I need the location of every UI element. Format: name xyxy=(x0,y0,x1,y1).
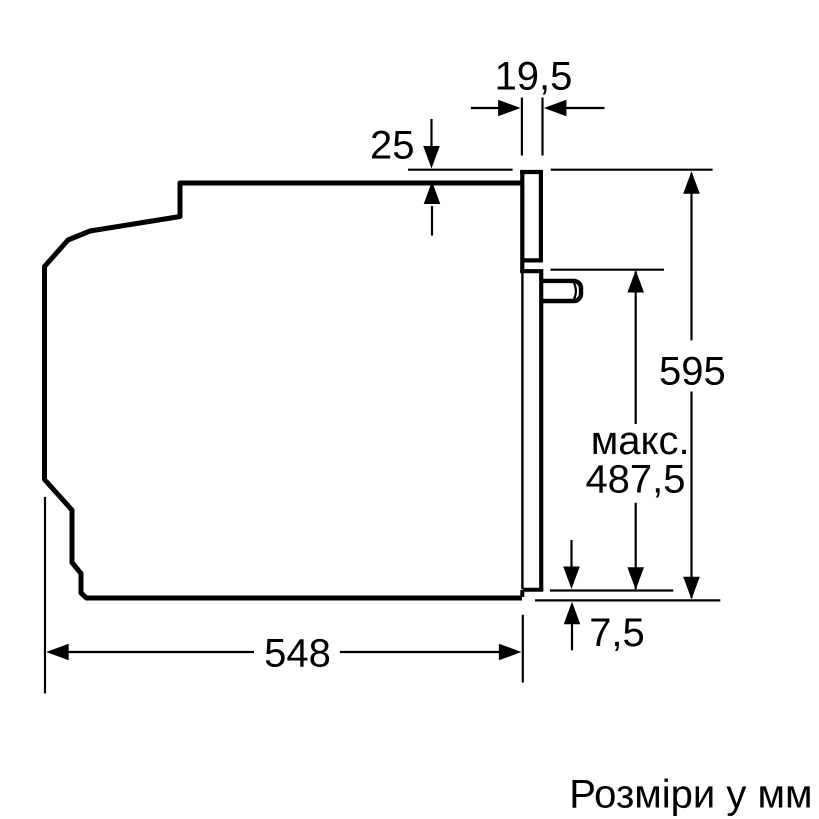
svg-text:7,5: 7,5 xyxy=(589,611,645,655)
595 top arrowhead xyxy=(683,171,700,194)
bottom reference line xyxy=(535,599,720,601)
svg-text:19,5: 19,5 xyxy=(495,55,573,99)
svg-text:595: 595 xyxy=(659,350,726,394)
19,5 left extension line xyxy=(521,98,523,156)
7,5 down arrow xyxy=(570,540,572,568)
door left stub to oven bottom xyxy=(520,590,524,597)
487,5 top arrowhead xyxy=(627,270,644,293)
svg-text:548: 548 xyxy=(264,631,331,675)
19,5 right arrow xyxy=(566,107,605,109)
door lower-left thin edge xyxy=(521,273,523,589)
door upper section bottom cap xyxy=(524,258,544,262)
487,5 dimension line xyxy=(635,272,637,425)
door handle xyxy=(543,281,581,301)
595 bottom arrowhead xyxy=(683,577,700,600)
reference line at 7,5 above bottom xyxy=(550,589,673,591)
door lower-right vertical edge xyxy=(539,273,543,590)
548 right extension line xyxy=(522,615,524,683)
svg-text:487,5: 487,5 xyxy=(585,457,685,501)
25 up arrow xyxy=(431,206,433,236)
487,5 bottom arrowhead xyxy=(627,567,644,590)
548 left extension line xyxy=(44,497,46,694)
top extension line left of door (25 reference) xyxy=(408,169,513,171)
19,5 right extension line xyxy=(541,98,543,156)
svg-text:Розміри у мм: Розміри у мм xyxy=(569,772,812,816)
548 right arrowhead xyxy=(499,644,522,661)
handle end cap arc xyxy=(574,283,576,299)
19,5 left arrow xyxy=(471,107,499,109)
top extension line right of door (595 reference) xyxy=(551,169,713,171)
548 dimension line xyxy=(68,651,254,653)
door top cap xyxy=(520,170,543,174)
487,5 top reference line (handle level) xyxy=(551,269,665,271)
595 dimension line xyxy=(690,173,692,340)
door bottom cap xyxy=(523,588,543,592)
door upper-right vertical edge xyxy=(539,171,543,260)
25 down arrow xyxy=(430,119,432,148)
door lower section top cap xyxy=(520,269,543,273)
door upper-left vertical edge xyxy=(520,170,524,273)
oven body outline xyxy=(45,183,523,598)
7,5 up arrow xyxy=(571,623,573,650)
svg-text:25: 25 xyxy=(370,124,415,168)
548 left arrowhead xyxy=(46,644,68,661)
